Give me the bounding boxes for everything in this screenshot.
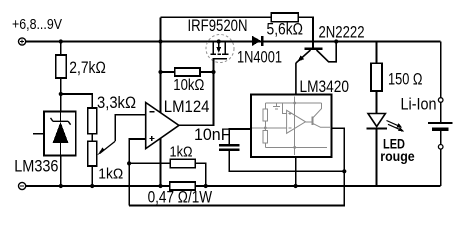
LED diode [368, 114, 385, 127]
wire battery top lead [440, 42, 442, 98]
svg-text:rouge: rouge [380, 148, 415, 164]
resistor 5,6k [271, 13, 298, 22]
svg-text:Li-Ion: Li-Ion [401, 95, 437, 113]
wire opamp output [179, 72, 214, 125]
wire LM336 bottom lead [60, 155, 62, 186]
wire 3,3k to pot [91, 134, 93, 142]
node 10k right / gate / opamp out [211, 70, 215, 74]
resistor 1k feedback [129, 162, 170, 164]
resistor 2,7k [56, 55, 67, 78]
svg-text:150 Ω: 150 Ω [388, 71, 423, 89]
LM3420 interior [252, 96, 330, 155]
terminal minus [19, 182, 26, 189]
LED arrows [387, 121, 402, 131]
node pot bottom [90, 184, 94, 188]
node rail x160 [158, 39, 162, 43]
capacitor 10nF [219, 144, 239, 146]
svg-text:2N2222: 2N2222 [319, 22, 365, 41]
wire gate lead [213, 59, 215, 72]
svg-text:1N4001: 1N4001 [237, 48, 282, 67]
wire V+ pin [160, 72, 162, 113]
box LM3420 [251, 94, 332, 157]
svg-text:IRF9520N: IRF9520N [188, 16, 248, 35]
svg-text:1kΩ: 1kΩ [170, 144, 193, 161]
resistor 3,3k [88, 108, 97, 134]
terminal plus [19, 38, 26, 45]
svg-text:1kΩ: 1kΩ [98, 166, 123, 183]
diode 1N4001 [252, 36, 261, 46]
pot wiper arrow [100, 141, 116, 153]
wire pot bottom lead [91, 166, 93, 186]
svg-text:LM336: LM336 [14, 156, 58, 175]
wire noninverting input [129, 139, 146, 206]
node LM3420 bottom [294, 184, 298, 188]
wire 1k right lead [195, 163, 205, 186]
wire V- pin [160, 138, 162, 186]
resistor 150 [371, 63, 382, 91]
svg-text:2,7kΩ: 2,7kΩ [69, 58, 106, 77]
node collector rail [334, 39, 338, 43]
node V- rail [158, 184, 162, 188]
wire vertical input column [160, 17, 162, 112]
wire cap bottom lead [229, 151, 344, 172]
wire LED branch top [376, 42, 378, 64]
emitter with arrow [296, 50, 311, 94]
wire inverting input to pot wiper [115, 115, 146, 142]
wire bottom loop [129, 171, 344, 205]
node 10k left [158, 70, 162, 74]
wire top bypass rail [161, 17, 314, 47]
wire bottom rail [26, 185, 441, 187]
wire 150 to LED [376, 91, 378, 114]
wire LM336 top lead [60, 94, 62, 112]
svg-text:LM3420: LM3420 [300, 77, 350, 96]
resistor 0,47 sense [170, 182, 195, 190]
svg-text:3,3kΩ: 3,3kΩ [97, 93, 136, 112]
op-amp LM124 [146, 103, 179, 149]
potentiometer 1k [88, 141, 97, 166]
zener inside LM336 [60, 112, 62, 122]
svg-text:LM124: LM124 [164, 97, 210, 116]
connector circle top [438, 98, 443, 103]
LM336 adj stub [33, 133, 44, 135]
svg-text:0,47 Ω/1W: 0,47 Ω/1W [148, 188, 213, 206]
mosfet IRF9520N [206, 35, 234, 63]
battery Li-Ion [440, 102, 442, 122]
wire LM3420 right pin [332, 128, 345, 171]
resistor 10k [161, 71, 214, 73]
transistor 2N2222 [305, 47, 323, 50]
wire LM3420 bottom pin [295, 157, 297, 186]
wire 2,7k bottom lead [60, 78, 62, 94]
wire battery bottom lead [440, 149, 442, 186]
svg-text:+6,8...9V: +6,8...9V [12, 17, 62, 33]
wire main top rail [26, 41, 441, 43]
wire to 3,3k [61, 94, 92, 108]
node 1k right to rail [204, 184, 208, 188]
node main rail / 2,7k branch [59, 39, 63, 43]
wire LED cathode to rail [376, 129, 378, 186]
wire cap top lead [229, 129, 251, 144]
svg-text:5,6kΩ: 5,6kΩ [267, 19, 304, 38]
svg-text:10nF: 10nF [194, 126, 231, 144]
connector circle bottom [438, 145, 443, 150]
node feedback junction [342, 169, 346, 173]
wire 2,7k top lead [60, 42, 62, 56]
node +input / 1k left [127, 161, 131, 165]
node 2,7k / LM336 / 3,3k [59, 92, 63, 96]
svg-text:10kΩ: 10kΩ [173, 77, 204, 94]
node LM336 bottom [59, 184, 63, 188]
box LM336 [44, 112, 76, 156]
collector [317, 42, 337, 62]
